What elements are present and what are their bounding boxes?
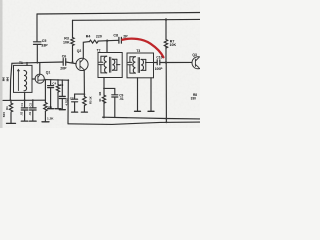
wire: T3 bottom pin 2 [150, 78, 152, 111]
node: rail2/R7 junction [165, 18, 167, 20]
wire: Q2 emitter down [83, 70, 85, 94]
wire: riser from top rail to C5 [36, 14, 38, 42]
transistor Q1 [35, 74, 44, 83]
ground tick R1 [7, 122, 16, 124]
wire: branch to C7 [75, 94, 85, 99]
ground tick mid [55, 108, 61, 110]
capacitor C10 [157, 60, 160, 65]
ground tick T3 pin2 [148, 110, 154, 112]
wire: C6 to Q2 base [66, 62, 77, 64]
wire: T2 top pin [106, 41, 108, 53]
junction dots [9, 18, 167, 123]
wire: rail2 corner down to R3 [72, 20, 74, 37]
wire: Q2 collector riser [83, 42, 89, 59]
wire: top feedback rail [37, 13, 200, 15]
node: C10/R7/Q3 [165, 61, 167, 63]
wire: long drop from W2 to bottom bus [67, 80, 69, 124]
T3 secondary coil [141, 59, 143, 70]
wire: W1 horizontal node wire left segment [12, 62, 63, 63]
capacitor C9 [112, 95, 118, 97]
T1 tuning slug line [18, 70, 20, 91]
T2 secondary tap dot [116, 64, 118, 66]
capacitor C5 [34, 42, 42, 45]
wire: rail2 drop to R7 [165, 20, 167, 40]
wire: T3 to C10 [154, 62, 158, 64]
resistor R7 [164, 40, 167, 49]
wire: R2 riser [44, 80, 46, 103]
capacitor C1 [24, 100, 26, 107]
node: bus B crossing [165, 121, 167, 123]
ground tick T3 pin1 [135, 110, 141, 112]
wire: left riser down to bottom rail [10, 63, 12, 100]
capacitor C3 drop [61, 80, 63, 96]
ground tick R5 [81, 111, 87, 113]
transistor Q2 [76, 58, 88, 70]
transformer T1 box [14, 65, 33, 92]
wire: R4 to node [98, 39, 119, 42]
T2 secondary leg [112, 59, 120, 70]
node: W2 end [67, 79, 69, 81]
node: rail3 C2 [32, 99, 34, 101]
transformer T3 box [127, 53, 154, 78]
T1 coil winding [24, 70, 27, 90]
T3 secondary tap dot [145, 62, 147, 64]
node: W2 C3 [61, 79, 63, 81]
capacitor C6 [63, 59, 65, 66]
antenna glyph 2 [6, 78, 9, 81]
resistor R6 [103, 88, 105, 95]
ground tick C4 [48, 108, 54, 110]
node: W2 R2 [45, 79, 47, 81]
wire: Q1 emitter wire W2 [44, 79, 68, 82]
paper noise overlay [0, 0, 200, 128]
wire: T1 bottom pin [24, 92, 26, 100]
wire: T3 bottom pin 1 [137, 78, 139, 111]
resistor R1 [10, 100, 12, 103]
ground tick C3 [59, 109, 65, 111]
capacitor C8 [119, 37, 122, 43]
resistor R4 [89, 40, 97, 43]
node: W2 mid [57, 79, 59, 81]
node: rail3 left [9, 99, 11, 101]
capacitor C4 [48, 86, 54, 88]
wire: C4 drop [50, 80, 52, 86]
wire: bottom bus B [68, 122, 200, 124]
T2 secondary coil [112, 59, 114, 70]
T2 core [110, 57, 111, 72]
wire: T1 top stub to W1 [26, 63, 28, 66]
wire: supply rail 2 [73, 18, 201, 21]
ground tick C2 [30, 120, 37, 122]
wire: C5 to node W1 [36, 45, 38, 63]
node: R4 T2 junction [106, 40, 108, 42]
wire: R3 to Q2 base node [72, 46, 74, 63]
node: bus A crossing [165, 118, 167, 120]
wire: bottom left rail [3, 99, 45, 101]
capacitor C7 [72, 99, 78, 102]
T3 primary coil [133, 57, 136, 73]
T2 primary coil [104, 56, 107, 73]
node: R6 branch [103, 88, 105, 90]
antenna glyph 1 [2, 78, 4, 81]
wire: Q1 collector riser to W1 [39, 63, 41, 75]
wire: branch to C9 [104, 88, 115, 94]
wire: node to Q3 base [166, 61, 192, 63]
red wire: regeneration link [122, 39, 163, 58]
resistor R3 [71, 38, 74, 46]
node: Q2 emitter split [84, 93, 86, 95]
wire: C4 to tick [50, 88, 52, 109]
ground tick R2 [42, 121, 49, 123]
ground tick C7 [72, 111, 78, 113]
node: R3/W1 [72, 61, 74, 63]
node: rail3 C1 [24, 99, 26, 101]
wire: T2 bottom pin [103, 78, 105, 89]
wire: C9 to bus A [114, 97, 116, 117]
wire: node down to bus B [165, 63, 167, 123]
node: R6 bus A [103, 116, 105, 118]
resistor R2 [44, 103, 47, 112]
node: T1 top stub [26, 62, 28, 64]
T3 core [138, 58, 139, 73]
ground tick C1 [21, 120, 28, 122]
T3 primary cap leg [128, 57, 135, 73]
transistor Q3 [192, 57, 204, 69]
resistor mid drop [57, 80, 59, 85]
wire: Q1 base from T1 [32, 78, 35, 80]
wire: C10 to node [160, 62, 166, 64]
T2 primary cap leg [99, 56, 107, 73]
node: C5/W1 [36, 62, 38, 64]
capacitor C2 [32, 100, 34, 107]
resistor R5 [83, 94, 85, 96]
labels [19, 34, 197, 121]
node: W2 C4 [50, 79, 52, 81]
wire: bus A [103, 117, 201, 119]
wire: R7 to node [165, 47, 167, 63]
T3 secondary leg [141, 59, 153, 70]
wire: R2 to ground tick [44, 112, 46, 122]
transformer T2 box [98, 53, 122, 78]
